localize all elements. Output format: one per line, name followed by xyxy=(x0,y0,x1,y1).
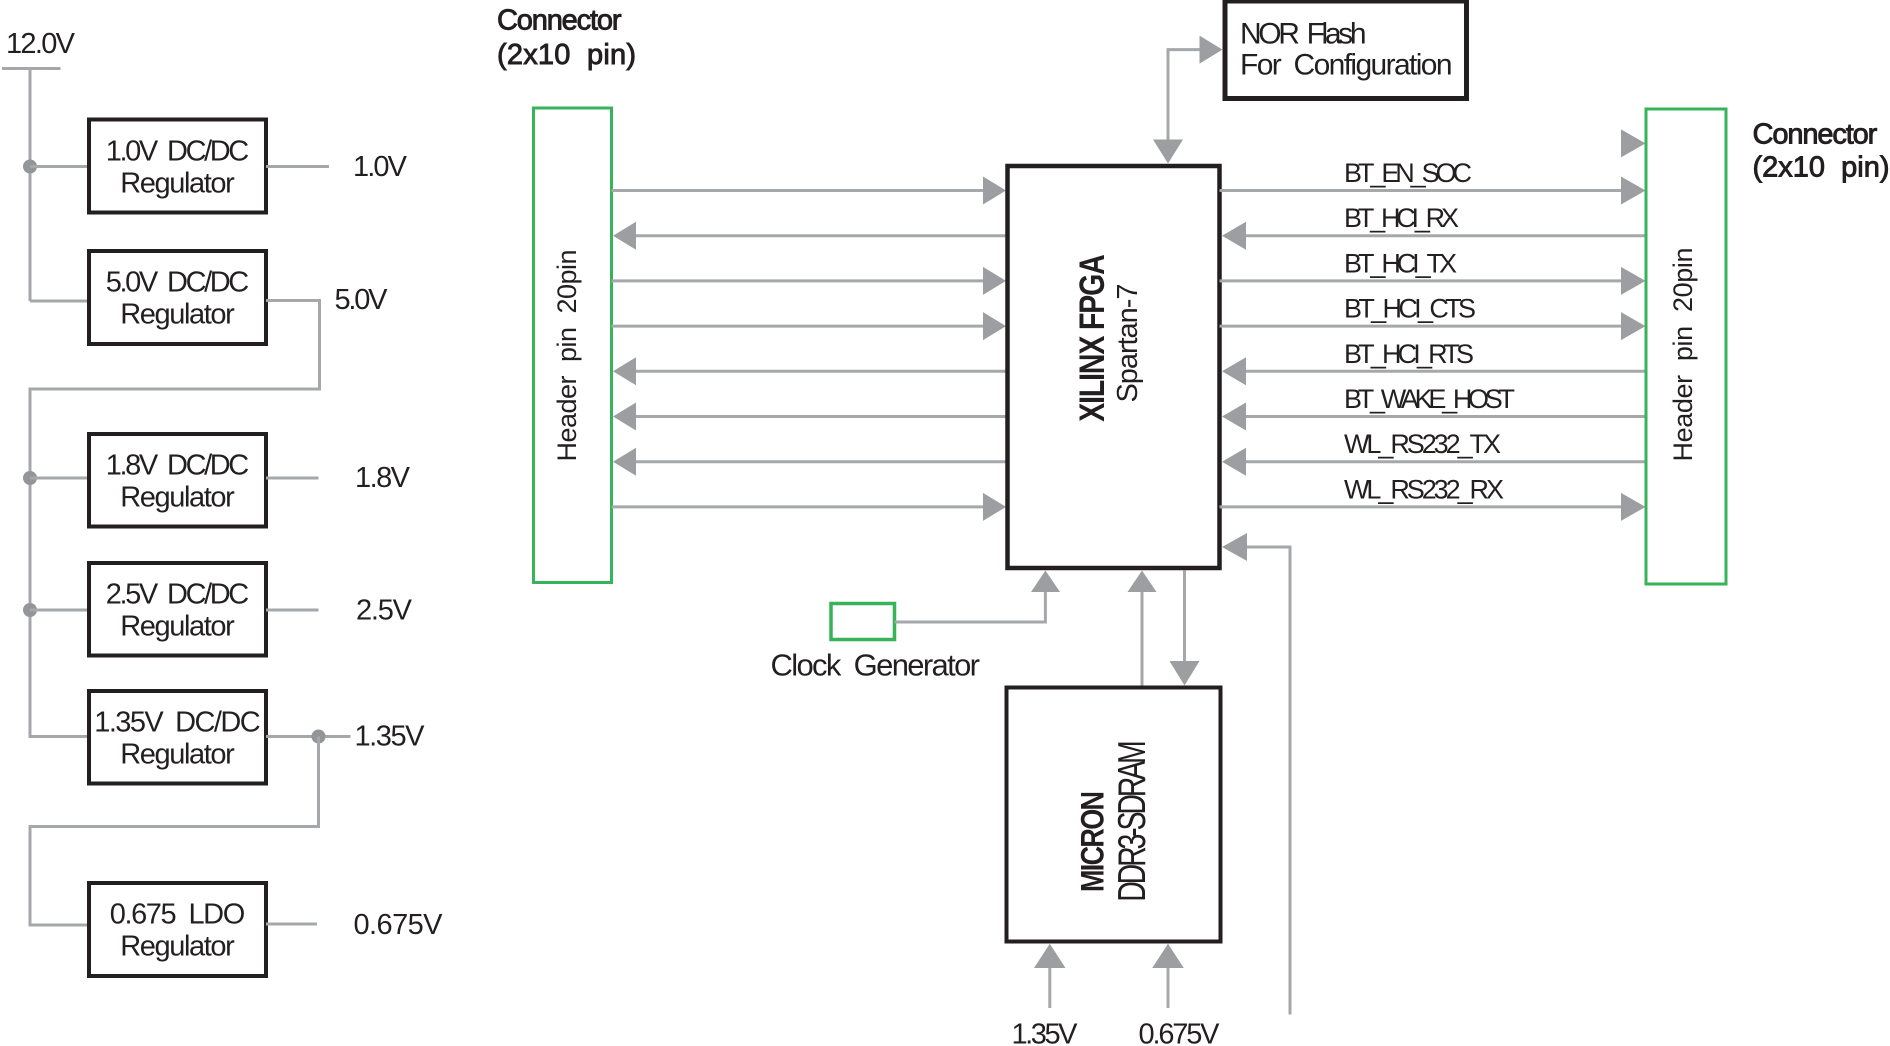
wire FPGA to NOR flash xyxy=(1153,36,1223,164)
wire 12.0V source tick xyxy=(2,67,61,70)
svg-text:WL_RS232_TX: WL_RS232_TX xyxy=(1344,429,1501,459)
wire 2.5V output xyxy=(266,609,319,612)
net WL_RS232_TX xyxy=(1222,429,1646,476)
svg-text:2.5V: 2.5V xyxy=(356,595,413,627)
svg-text:Regulator: Regulator xyxy=(120,167,235,199)
svg-text:5.0V DC/DC: 5.0V DC/DC xyxy=(106,267,250,299)
connector J1 label xyxy=(497,5,636,72)
svg-text:Regulator: Regulator xyxy=(120,931,235,963)
wire FPGA to J1 row 5 xyxy=(613,357,1008,385)
wire DDR3 to FPGA xyxy=(1128,571,1157,688)
wire 12V to 1.0V regulator xyxy=(30,165,89,168)
wire 1.8V output xyxy=(266,477,319,480)
svg-text:BT_HCI_RX: BT_HCI_RX xyxy=(1344,203,1459,233)
regulator U1 1.0V DC/DC xyxy=(89,120,266,213)
svg-text:1.0V DC/DC: 1.0V DC/DC xyxy=(106,135,250,167)
regulator U2 5.0V DC/DC xyxy=(89,251,266,344)
svg-text:Spartan-7: Spartan-7 xyxy=(1112,284,1144,403)
connector J1 header pin 20pin xyxy=(534,108,612,583)
svg-text:0.675V: 0.675V xyxy=(1139,1019,1221,1046)
clock generator Y1 xyxy=(771,604,981,683)
svg-text:Regulator: Regulator xyxy=(120,481,235,513)
junction dot at 1.0V input xyxy=(23,160,37,174)
junction dot at 1.35V output xyxy=(312,730,326,744)
svg-text:1.35V DC/DC: 1.35V DC/DC xyxy=(94,706,261,738)
net BT_HCI_RTS xyxy=(1222,339,1646,386)
net BT_HCI_CTS xyxy=(1220,294,1646,341)
SDRAM U11 MICRON DDR3 xyxy=(1007,688,1221,942)
svg-text:DDR3-SDRAM: DDR3-SDRAM xyxy=(1111,740,1154,901)
svg-text:5.0V: 5.0V xyxy=(335,284,389,316)
svg-text:1.8V: 1.8V xyxy=(355,462,411,494)
net BT_HCI_TX xyxy=(1220,248,1646,295)
regulator U5 1.35V DC/DC xyxy=(89,691,266,784)
wire clock generator to FPGA xyxy=(895,571,1061,623)
net BT_HCI_RX xyxy=(1222,203,1646,250)
svg-text:Header pin 20pin: Header pin 20pin xyxy=(552,250,582,462)
svg-text:Clock Generator: Clock Generator xyxy=(771,648,981,683)
svg-text:BT_HCI_RTS: BT_HCI_RTS xyxy=(1344,339,1474,369)
svg-text:BT_EN_SOC: BT_EN_SOC xyxy=(1344,158,1472,188)
regulator U6 0.675 LDO xyxy=(89,883,266,976)
svg-text:NOR Flash: NOR Flash xyxy=(1240,18,1367,51)
connector J2 label xyxy=(1753,119,1890,184)
wire 0.675V to DDR3 xyxy=(1152,944,1184,1008)
svg-text:Connector: Connector xyxy=(497,5,622,37)
wire from bottom to FPGA right xyxy=(1222,533,1290,1015)
svg-text:Connector: Connector xyxy=(1753,119,1878,151)
wire J1 to FPGA row 1 xyxy=(612,177,1007,205)
wire 12V rail vertical xyxy=(29,69,32,302)
wire 1.35V to DDR3 xyxy=(1034,944,1066,1008)
wire 12V to 5.0V regulator xyxy=(30,300,89,303)
wire FPGA to J1 row 2 xyxy=(613,222,1008,250)
svg-text:(2x10 pin): (2x10 pin) xyxy=(497,39,636,71)
wire 5.0V output feed to lower rail xyxy=(30,301,320,737)
svg-text:1.35V: 1.35V xyxy=(1012,1019,1079,1046)
connector J2 header pin 20pin xyxy=(1646,109,1726,584)
svg-text:(2x10 pin): (2x10 pin) xyxy=(1753,152,1890,184)
wire FPGA to DDR3 xyxy=(1170,571,1200,686)
regulator U4 2.5V DC/DC xyxy=(89,563,266,656)
wire 0.675V output xyxy=(266,923,317,926)
wire 1.0V output xyxy=(266,165,329,168)
wire J1 to FPGA row 4 xyxy=(612,312,1007,340)
svg-text:1.8V DC/DC: 1.8V DC/DC xyxy=(106,449,250,481)
wire 5V rail to 1.8V regulator xyxy=(30,477,89,480)
svg-text:WL_RS232_RX: WL_RS232_RX xyxy=(1344,474,1504,504)
svg-text:1.0V: 1.0V xyxy=(353,151,408,183)
net WL_RS232_RX xyxy=(1220,474,1646,521)
svg-text:BT_HCI_TX: BT_HCI_TX xyxy=(1344,248,1457,278)
regulator U3 1.8V DC/DC xyxy=(89,434,266,527)
NOR flash U3 box xyxy=(1225,1,1467,99)
svg-text:XILINX FPGA: XILINX FPGA xyxy=(1072,254,1112,422)
net BT_EN_SOC xyxy=(1220,158,1646,205)
FPGA U10 XILINX Spartan-7 xyxy=(1008,166,1220,568)
svg-text:0.675 LDO: 0.675 LDO xyxy=(110,899,246,931)
wire 1.35V output xyxy=(266,735,351,738)
svg-text:2.5V DC/DC: 2.5V DC/DC xyxy=(106,578,250,610)
wire FPGA to J1 row 7 xyxy=(613,448,1008,476)
net BT_WAKE_HOST xyxy=(1222,384,1646,431)
svg-text:Header pin 20pin: Header pin 20pin xyxy=(1668,248,1698,462)
wire J1 to FPGA row 3 xyxy=(612,267,1007,295)
svg-text:Regulator: Regulator xyxy=(120,610,235,642)
wire 5V rail to 2.5V regulator xyxy=(30,609,89,612)
wire 1.35V feed to LDO xyxy=(30,737,319,926)
svg-text:12.0V: 12.0V xyxy=(6,28,76,60)
wire FPGA to J1 row 6 xyxy=(613,403,1008,431)
junction dot at 1.8V input xyxy=(23,471,37,485)
svg-text:0.675V: 0.675V xyxy=(354,909,444,941)
arrowhead into J2 top xyxy=(1621,129,1646,157)
wire J1 to FPGA row 8 xyxy=(612,493,1007,521)
svg-text:MICRON: MICRON xyxy=(1075,791,1111,892)
svg-text:BT_WAKE_HOST: BT_WAKE_HOST xyxy=(1344,384,1515,414)
svg-text:1.35V: 1.35V xyxy=(355,721,426,753)
svg-text:BT_HCI_CTS: BT_HCI_CTS xyxy=(1344,294,1476,324)
junction dot at 2.5V input xyxy=(23,603,37,617)
svg-text:Regulator: Regulator xyxy=(120,738,235,770)
svg-text:For Configuration: For Configuration xyxy=(1240,49,1453,82)
svg-text:Regulator: Regulator xyxy=(120,299,235,331)
